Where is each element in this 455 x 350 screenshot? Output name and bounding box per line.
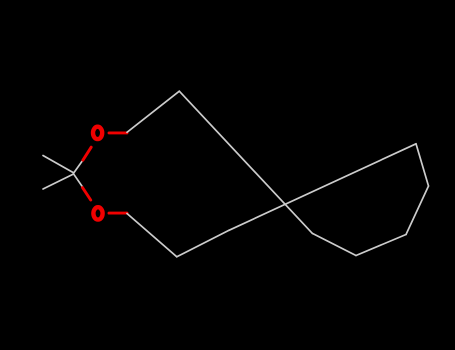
wire C4 down to B1 <box>127 214 177 257</box>
white bond methyl upper-left <box>43 156 74 173</box>
wire right edge lower <box>406 186 429 235</box>
white half bond C2 to O3 <box>74 174 84 188</box>
wire bottom V right <box>356 235 406 256</box>
oxygen O3 letter <box>93 207 102 219</box>
white bond methyl lower-left <box>43 174 74 189</box>
white half bond C2 to O1 <box>74 159 84 173</box>
wire right edge upper <box>416 144 429 186</box>
red half bond to O3 <box>83 188 91 200</box>
wire C17a up to apex <box>127 91 179 132</box>
red bond O3 to C4 <box>109 212 127 215</box>
oxygen O1 letter <box>93 127 102 139</box>
red half bond to O1 <box>83 147 91 160</box>
red bond O1 to C17a <box>109 131 127 134</box>
wire B1 to B2 <box>177 230 229 256</box>
wire bottom V left <box>312 233 356 255</box>
wire long ascending diagonal <box>229 144 416 231</box>
wire long descending diagonal <box>179 91 312 233</box>
